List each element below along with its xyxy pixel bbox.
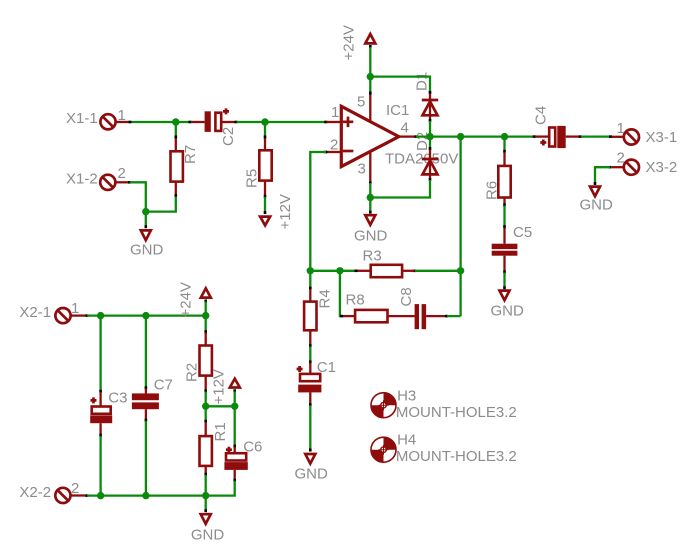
mount hole H3 bbox=[371, 387, 517, 421]
junction +12V/C6 bbox=[231, 403, 238, 410]
wire D1 to output node bbox=[429, 119, 432, 137]
wire C6 column bbox=[234, 406, 236, 447]
capacitor C8 bbox=[398, 287, 446, 329]
resistor R2 bbox=[184, 333, 212, 391]
resistor R7 bbox=[171, 138, 200, 195]
wire junction to D1 bbox=[370, 77, 430, 94]
svg-text:2: 2 bbox=[617, 150, 625, 167]
svg-text:C6: C6 bbox=[243, 438, 262, 455]
wire R4 top drop bbox=[309, 271, 311, 290]
svg-text:1: 1 bbox=[617, 120, 625, 137]
svg-text:C5: C5 bbox=[513, 224, 532, 241]
resistor R5 bbox=[244, 138, 272, 195]
capacitor C6 bbox=[224, 438, 262, 479]
op-amp pin 4 stub bbox=[399, 135, 415, 137]
wire net IN: X1-1 to C2 bbox=[128, 121, 191, 123]
junction R8 tap bbox=[336, 267, 343, 274]
svg-text:5: 5 bbox=[357, 94, 365, 111]
wire R8 branch drop bbox=[340, 271, 343, 316]
svg-text:+24V: +24V bbox=[341, 25, 358, 60]
svg-text:1: 1 bbox=[331, 104, 339, 121]
op-amp pin 5 stub bbox=[369, 95, 371, 122]
svg-text:2: 2 bbox=[118, 165, 126, 182]
svg-text:C8: C8 bbox=[398, 287, 415, 306]
wire C7 to bottom net bbox=[145, 419, 148, 496]
ground GND (C5) bbox=[491, 291, 525, 320]
resistor R8 bbox=[343, 291, 415, 322]
svg-text:X1-1: X1-1 bbox=[66, 110, 98, 127]
junction R2 top bbox=[202, 312, 209, 319]
svg-text:GND: GND bbox=[491, 302, 525, 319]
svg-text:GND: GND bbox=[295, 465, 329, 482]
junction X1-2/R7/GND bbox=[142, 208, 149, 215]
wire junction to GND bbox=[145, 212, 147, 229]
resistor R6 bbox=[484, 152, 511, 205]
wire C3 to bottom net bbox=[99, 434, 102, 496]
connector X1-2 bbox=[66, 165, 128, 190]
junction R5 top bbox=[261, 118, 268, 125]
wire R7 top drop bbox=[175, 122, 177, 139]
wire D2 top bbox=[429, 137, 431, 150]
junction pin3/D2/GND bbox=[367, 194, 374, 201]
wire bottom net bbox=[85, 494, 205, 497]
svg-text:2: 2 bbox=[71, 480, 79, 497]
wire R2 top drop bbox=[205, 316, 207, 334]
svg-text:GND: GND bbox=[130, 242, 164, 259]
supply +24V (op-amp) bbox=[341, 25, 376, 60]
junction R4 top bbox=[307, 267, 314, 274]
wire feedback net horizontal bbox=[310, 270, 460, 272]
svg-text:+24V: +24V bbox=[178, 282, 195, 317]
wire +12V horizontal bbox=[206, 405, 235, 407]
svg-text:MOUNT-HOLE3.2: MOUNT-HOLE3.2 bbox=[396, 448, 517, 465]
wire +24V down to junction bbox=[369, 45, 372, 95]
svg-text:C2: C2 bbox=[220, 127, 237, 146]
svg-text:R8: R8 bbox=[346, 291, 365, 308]
supply +12V (R5) bbox=[260, 194, 294, 229]
svg-text:X2-2: X2-2 bbox=[19, 484, 51, 501]
diode D1 bbox=[422, 94, 438, 120]
connector X3-1 bbox=[612, 120, 677, 146]
junction C3 bottom bbox=[97, 492, 104, 499]
wire R6 to C5 bbox=[503, 204, 506, 229]
wire +24V drop bbox=[204, 300, 207, 316]
wire C1 to GND bbox=[309, 403, 312, 451]
svg-text:+12V: +12V bbox=[211, 369, 228, 404]
junction at R7 top bbox=[172, 118, 179, 125]
svg-text:R4: R4 bbox=[317, 289, 334, 308]
svg-text:1: 1 bbox=[118, 107, 126, 124]
junction R1 bottom / GND bbox=[202, 492, 209, 499]
wire R7 bottom bbox=[146, 194, 176, 211]
svg-text:GND: GND bbox=[354, 227, 388, 244]
svg-text:TDA2050V: TDA2050V bbox=[385, 150, 458, 167]
junction D1/D2 on output bbox=[426, 133, 433, 140]
junction +24V/pin5/D1 bbox=[367, 73, 374, 80]
wire junction to GND symbol bbox=[369, 198, 371, 214]
junction R6 top bbox=[501, 133, 508, 140]
ground GND (op-amp) bbox=[354, 215, 388, 244]
wire C2 to op-amp pin1 bbox=[235, 121, 328, 124]
wire R6 top drop bbox=[503, 137, 505, 153]
wire D2 bottom to pin3 junction bbox=[370, 178, 430, 198]
svg-text:X2-1: X2-1 bbox=[19, 304, 51, 321]
capacitor C5 bbox=[492, 224, 532, 272]
capacitor C4 bbox=[533, 106, 580, 148]
svg-text:X1-2: X1-2 bbox=[66, 171, 98, 188]
wire C8 to feedback vertical bbox=[445, 315, 461, 318]
wire C4 to X3-1 bbox=[579, 135, 612, 138]
svg-text:1: 1 bbox=[71, 300, 79, 317]
diode D2 bbox=[422, 150, 438, 179]
svg-text:R5: R5 bbox=[244, 169, 261, 188]
svg-text:MOUNT-HOLE3.2: MOUNT-HOLE3.2 bbox=[396, 404, 517, 421]
supply +12V (bottom left) bbox=[211, 369, 240, 404]
connector X2-2 bbox=[19, 480, 85, 503]
ground GND (C1) bbox=[295, 454, 329, 482]
svg-text:R3: R3 bbox=[363, 247, 382, 264]
svg-text:3: 3 bbox=[358, 160, 366, 177]
wire C6 to bottom net bbox=[206, 479, 235, 496]
op-amp pin 2 stub bbox=[326, 151, 340, 153]
wire GND drop (bottom) bbox=[205, 496, 207, 513]
svg-text:GND: GND bbox=[191, 527, 225, 544]
ground GND (bottom left) bbox=[191, 514, 225, 543]
resistor R1 bbox=[200, 422, 230, 474]
svg-text:R7: R7 bbox=[182, 145, 199, 164]
svg-text:4: 4 bbox=[401, 119, 409, 136]
wire R2 to +12V junction bbox=[204, 390, 207, 407]
svg-text:X3-1: X3-1 bbox=[646, 129, 678, 146]
svg-text:IC1: IC1 bbox=[386, 102, 409, 119]
supply +24V (bottom left) bbox=[178, 282, 211, 317]
svg-text:C7: C7 bbox=[154, 376, 173, 393]
capacitor C2 bbox=[192, 108, 237, 146]
connector X2-1 bbox=[19, 300, 85, 323]
capacitor C7 bbox=[132, 376, 173, 419]
wire feedback vertical bbox=[459, 137, 461, 317]
svg-text:C1: C1 bbox=[317, 359, 336, 376]
resistor R3 bbox=[358, 247, 415, 277]
svg-text:R1: R1 bbox=[212, 422, 229, 441]
resistor R4 bbox=[304, 289, 333, 345]
svg-text:R2: R2 bbox=[184, 363, 201, 382]
junction C7 bottom bbox=[142, 492, 149, 499]
svg-text:GND: GND bbox=[580, 197, 614, 214]
svg-text:R6: R6 bbox=[484, 181, 501, 200]
svg-text:H3: H3 bbox=[397, 387, 416, 404]
junction feedback tap bbox=[457, 133, 464, 140]
junction C3 top bbox=[97, 312, 104, 319]
wire R5 to +12V bbox=[264, 195, 267, 214]
mount hole H4 bbox=[371, 431, 517, 465]
wire op-amp pin 2 feedback loop bbox=[310, 152, 327, 271]
junction feedback right bbox=[457, 267, 464, 274]
capacitor C1 bbox=[297, 359, 336, 404]
wire R1 to bottom net bbox=[204, 473, 207, 496]
op-amp IC1 bbox=[330, 94, 458, 178]
wire X1-2 to junction bbox=[128, 182, 146, 211]
svg-text:X3-2: X3-2 bbox=[646, 159, 678, 176]
wire pin 3 to GND junction bbox=[369, 181, 372, 197]
op-amp pin 3 stub bbox=[369, 152, 371, 181]
svg-text:H4: H4 bbox=[397, 431, 416, 448]
wire +12V drop bbox=[233, 389, 236, 406]
wire R5 top drop bbox=[264, 122, 266, 139]
wire X3-2 to GND bbox=[595, 167, 611, 185]
op-amp pin 1 stub bbox=[326, 121, 340, 123]
ground GND (input) bbox=[130, 230, 164, 258]
connector X3-2 bbox=[612, 150, 678, 176]
svg-text:+12V: +12V bbox=[277, 194, 294, 229]
junction C7 top bbox=[142, 312, 149, 319]
wire R1 top drop bbox=[205, 406, 207, 423]
ground GND (X3-2) bbox=[580, 187, 614, 214]
wire C5 to GND bbox=[503, 271, 506, 290]
svg-text:C3: C3 bbox=[108, 389, 127, 406]
junction R2/R1/+12V bbox=[202, 403, 209, 410]
svg-text:C4: C4 bbox=[533, 106, 550, 125]
connector X1-1 bbox=[66, 107, 128, 129]
svg-text:D1: D1 bbox=[414, 72, 431, 91]
wire C7 column bbox=[145, 316, 147, 390]
wire output net bbox=[414, 135, 536, 138]
wire R4 to C1 bbox=[309, 344, 312, 363]
wire X2 supply net bbox=[85, 314, 205, 317]
capacitor C3 bbox=[90, 389, 127, 434]
wire C3 column bbox=[99, 316, 101, 393]
